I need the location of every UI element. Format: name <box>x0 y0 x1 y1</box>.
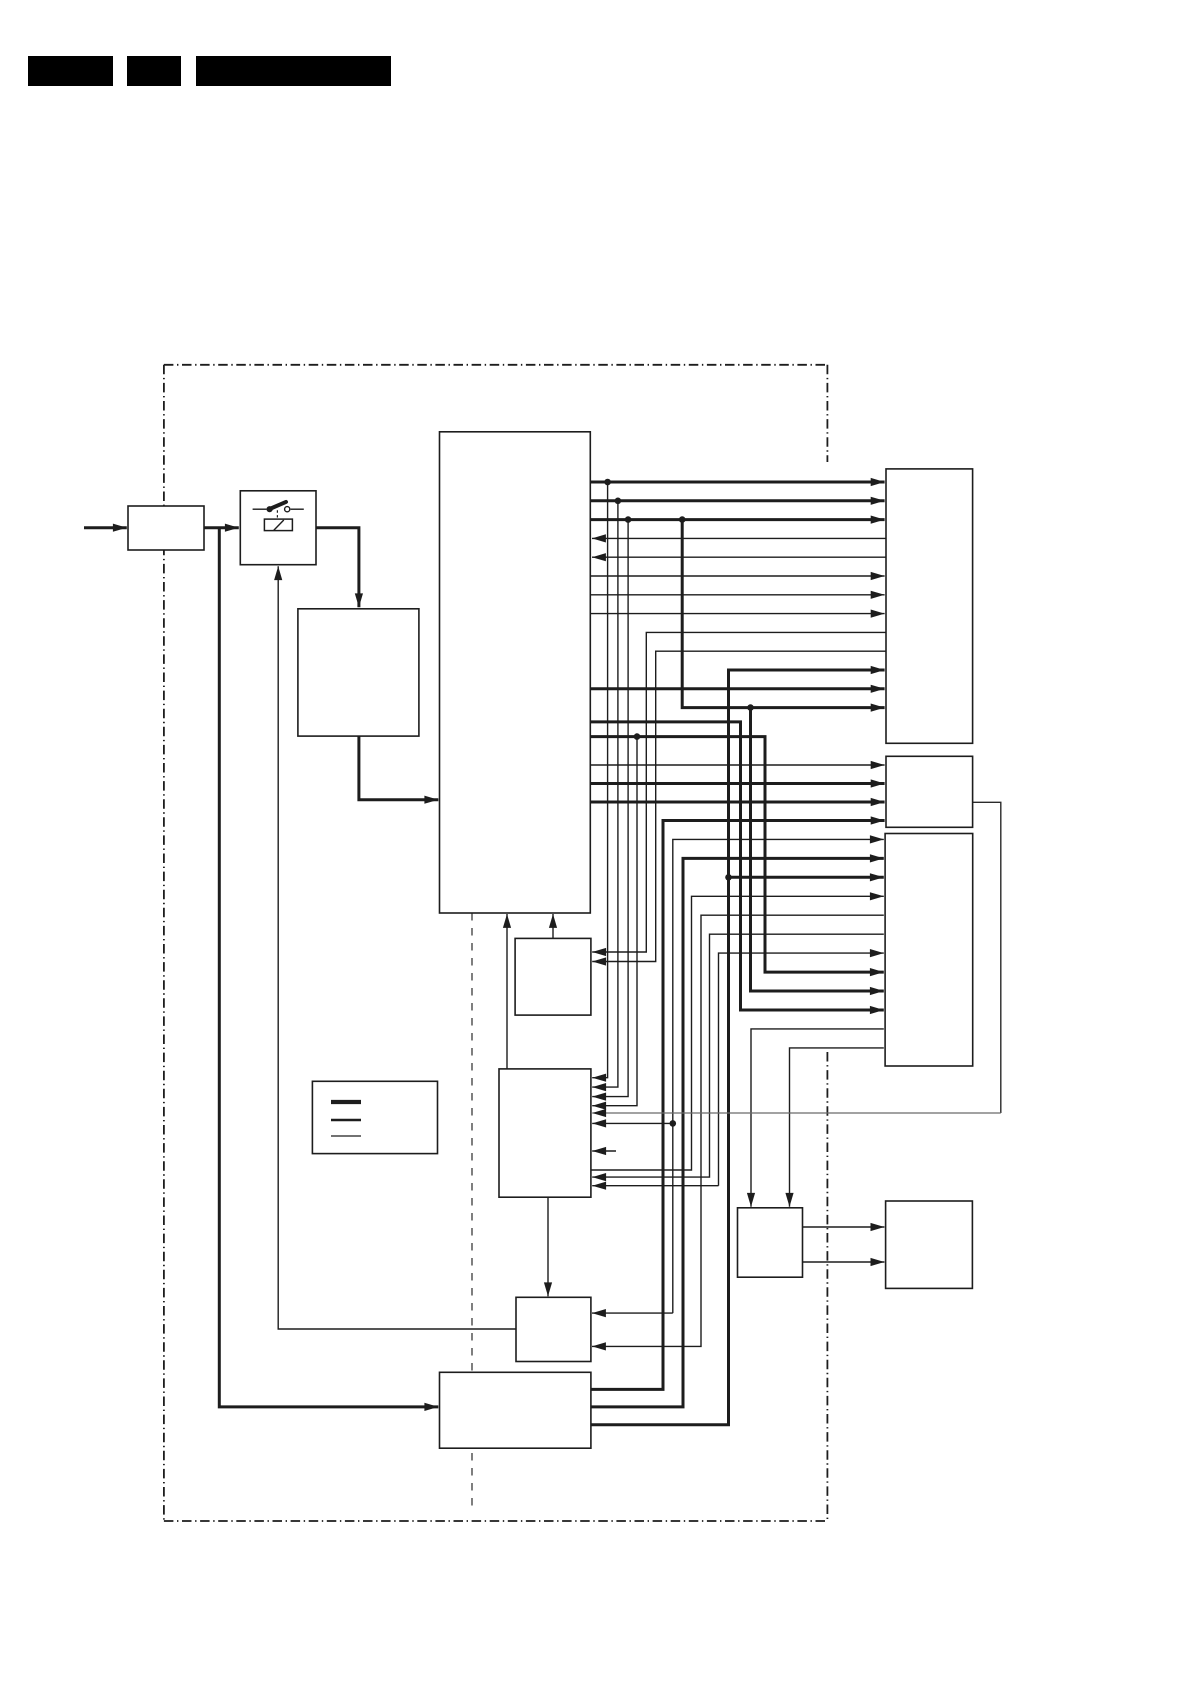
wire input to block A <box>84 526 127 529</box>
relay block B <box>240 491 316 565</box>
block G <box>885 834 973 1067</box>
wire branch to G 9 <box>751 708 884 991</box>
wire E to H upper <box>592 632 886 952</box>
wire branch to M 1 <box>592 1312 673 1314</box>
wire E-D 5 (to D) <box>592 556 886 558</box>
wire D-E 7 <box>590 594 884 596</box>
wire D-F 2 <box>590 782 884 785</box>
wire D-E 12 <box>590 687 884 690</box>
block N <box>440 1372 591 1448</box>
wire to I 10 <box>592 1185 718 1187</box>
wire G 6 to I 9 <box>592 934 884 1177</box>
header bar 2 (redacted title) <box>127 56 181 86</box>
wire D-F 1 <box>590 764 884 766</box>
wire D-E 1 <box>590 481 884 484</box>
wire G 12 down to K <box>790 1048 884 1207</box>
wire bus drop to I 2 <box>592 501 618 1087</box>
junction on wire D-E 13 <box>747 704 754 711</box>
junction on wire D-G 8 <box>634 733 641 740</box>
wire D-F 3 <box>590 801 884 804</box>
wire D to G 10 <box>590 722 884 1010</box>
wire D-E 8 <box>590 613 884 615</box>
block F <box>886 756 973 827</box>
header bar 3 (redacted title) <box>196 56 391 86</box>
legend thick sample line <box>331 1100 361 1104</box>
wire riser to G 7 <box>719 953 884 1186</box>
relay actuator dotted link <box>276 510 278 519</box>
wire branch down to block N <box>219 528 438 1407</box>
junction 2 on wire D-E 3 <box>679 516 686 523</box>
wire I down to M <box>547 1197 549 1296</box>
relay coil box <box>264 519 292 531</box>
wire D-E 6 <box>590 575 884 577</box>
legend box J <box>312 1081 437 1153</box>
header bar 1 (redacted title) <box>28 56 113 86</box>
wire I to G 4 <box>591 896 884 1170</box>
enclosure border top <box>164 364 828 366</box>
wire I up to D <box>506 914 508 1069</box>
relay coil diagonal <box>274 520 284 530</box>
junction on wire D-E 3 <box>625 516 632 523</box>
wire E-D 4 (to D) <box>592 537 886 539</box>
wire D to G 8 <box>590 737 884 973</box>
block M <box>516 1297 591 1361</box>
wire F loop bottom into I 5 <box>592 1112 1001 1114</box>
wire branch to I 6 <box>592 1122 673 1124</box>
wire stub arrow into I 7 <box>592 1150 616 1152</box>
relay switch right lead <box>291 508 304 510</box>
block C <box>298 609 419 736</box>
wire branch to I 4 <box>592 737 637 1106</box>
wire F loop around (top and right) <box>973 802 1001 1113</box>
junction on N-E riser <box>725 874 732 881</box>
wire G 11 down to K <box>751 1029 884 1207</box>
block I <box>499 1069 591 1197</box>
wire N to G 2 (riser) <box>591 858 884 1407</box>
wire M to relay B coil <box>278 566 516 1329</box>
wire D-E 2 <box>590 499 884 502</box>
wire riser branch to G 3 <box>729 876 884 879</box>
wire K to L upper <box>803 1226 885 1228</box>
wire N to E (riser) <box>591 670 885 1425</box>
wire bus drop to I 3 <box>592 520 628 1097</box>
relay switch pivot blob <box>267 506 273 512</box>
enclosure border right upper segment <box>826 365 828 462</box>
wire E to H lower <box>592 651 886 961</box>
wire bus drop to I 1 <box>592 482 607 1078</box>
enclosure border right lower segment <box>826 1052 828 1521</box>
junction on wire D-E 1 <box>604 479 611 486</box>
block K <box>738 1208 803 1277</box>
block L <box>886 1201 973 1288</box>
junction on G1 riser <box>670 1120 677 1127</box>
block H <box>515 938 591 1015</box>
wire relay B to block C <box>316 528 359 608</box>
block D (main IC) <box>440 432 591 913</box>
enclosure border bottom <box>164 1520 828 1522</box>
enclosure border left <box>163 365 165 1521</box>
wire A to relay B <box>204 526 239 529</box>
wire D-E 3 <box>590 518 884 521</box>
dashed partition line <box>471 913 473 1508</box>
wire D-E 13 (dropped) <box>682 520 884 708</box>
wire G 5 to M 2 <box>592 915 884 1346</box>
block A (input) <box>128 506 204 550</box>
relay switch left lead <box>253 508 267 510</box>
legend thin sample line <box>331 1135 361 1137</box>
legend medium sample line <box>331 1119 361 1122</box>
wire C to block D <box>359 736 438 800</box>
wire H up to D <box>552 914 554 938</box>
junction on wire D-E 2 <box>615 498 622 505</box>
wire riser to G 1 <box>673 839 884 1313</box>
block E <box>886 469 973 743</box>
relay switch contact circle <box>285 507 290 512</box>
relay switch lever <box>270 502 286 509</box>
wire N to F (riser) <box>591 821 885 1390</box>
wire K to L lower <box>803 1261 885 1263</box>
